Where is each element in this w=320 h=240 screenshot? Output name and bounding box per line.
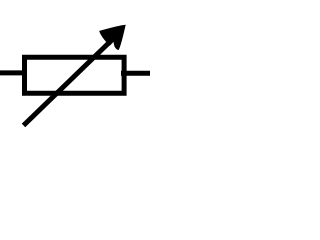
- wire left lead: [0, 70, 27, 75]
- resistor body R1: [25, 57, 125, 93]
- wiper arrowhead: [99, 25, 126, 50]
- wire right lead: [121, 71, 150, 76]
- variable resistor (rheostat) symbol: [0, 0, 150, 150]
- wiper arrow shaft: [24, 40, 112, 125]
